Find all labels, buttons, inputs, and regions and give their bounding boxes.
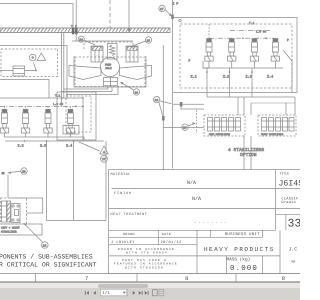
leader arrowhead on column line	[128, 29, 131, 33]
svg-text:WITH STD 00024: WITH STD 00024	[126, 252, 168, 255]
svg-text:PONENTS / SUB-ASSEMBLIES: PONENTS / SUB-ASSEMBLIES	[0, 253, 93, 260]
svg-text:27: 27	[160, 8, 164, 11]
balloon 16	[182, 122, 196, 130]
svg-text:T.1: T.1	[55, 95, 61, 98]
svg-text:LEFT + RIGHT: LEFT + RIGHT	[1, 227, 20, 230]
center dashed axis line	[109, 0, 111, 28]
port T bulkhead fitting	[71, 25, 74, 35]
pilot dash-dot bus right	[209, 37, 276, 39]
svg-text:T.1: T.1	[249, 22, 255, 25]
svg-text:26: 26	[155, 99, 159, 102]
node 2.2	[24, 140, 26, 142]
wire left riser x163	[162, 45, 164, 170]
wire long drop right	[105, 141, 107, 221]
svg-text:8: 8	[185, 276, 188, 282]
axle dashed upper box	[84, 42, 133, 49]
svg-text:DATE: DATE	[162, 232, 172, 236]
steering priority block	[57, 92, 96, 140]
axle dashed enclosure	[75, 57, 145, 87]
wire collector	[207, 96, 295, 98]
valve block under axle	[104, 78, 118, 86]
svg-text:17: 17	[102, 158, 106, 161]
title block	[109, 170, 301, 274]
node 2.3	[46, 140, 48, 142]
svg-text:WITH STD00250: WITH STD00250	[125, 266, 164, 269]
svg-text:OPTION: OPTION	[240, 153, 257, 158]
balloon WB under axle	[120, 82, 140, 95]
svg-text:P: P	[287, 39, 289, 42]
svg-text:Drawin: Drawin	[281, 200, 296, 205]
bus drops	[206, 71, 208, 73]
dashed riser	[208, 24, 210, 38]
svg-text:J LOCKLEY: J LOCKLEY	[111, 240, 135, 245]
mounting plate	[11, 204, 20, 223]
svg-text:FRONT STABILIZERS: FRONT STABILIZERS	[261, 133, 284, 136]
svg-text:DRAWN: DRAWN	[123, 232, 135, 236]
wire from outer box	[173, 103, 204, 105]
balloon 19	[42, 242, 49, 249]
svg-text:HEAT TREATMENT: HEAT TREATMENT	[111, 212, 148, 217]
svg-text:P: P	[189, 60, 191, 63]
svg-text:REAR STABILIZERS: REAR STABILIZERS	[209, 133, 231, 136]
wires	[10, 198, 43, 213]
pilot risers dashed	[4, 106, 6, 109]
wire axle left drop 1	[61, 33, 63, 107]
spool a	[2, 201, 7, 222]
front stabilizer manifold	[258, 115, 296, 136]
connector on P riser	[171, 15, 174, 20]
outlet steps right row	[203, 61, 209, 68]
solenoid valve 2.1d	[66, 109, 74, 133]
balloon 24	[78, 36, 95, 45]
sheet border	[0, 274, 300, 282]
wire option return	[0, 80, 49, 99]
svg-text:R CRITICAL OR SIGNIFICANT: R CRITICAL OR SIGNIFICANT	[0, 261, 97, 268]
port stub left	[2, 172, 5, 175]
center accumulator spring	[108, 44, 118, 60]
wire top-left supply loop	[0, 4, 73, 29]
svg-text:8: 8	[282, 276, 285, 282]
stab valve Z1	[205, 39, 213, 62]
solenoid valve 2.1c	[44, 109, 52, 133]
svg-text:J6I45: J6I45	[279, 180, 301, 189]
svg-text:16: 16	[183, 127, 187, 130]
inline filter component	[13, 66, 25, 76]
wire axle return runs	[64, 88, 108, 90]
stabilizer pilot block bottom-left	[1, 198, 43, 224]
svg-text:J.C: J.C	[289, 247, 298, 253]
wire P drop to axle	[75, 33, 77, 41]
svg-text:TITLE: TITLE	[280, 172, 290, 176]
svg-text:2.3: 2.3	[40, 143, 46, 148]
gauge symbol	[29, 54, 36, 61]
outer enclosure	[173, 18, 297, 93]
wire P line from top	[75, 0, 77, 28]
connector on wire	[180, 102, 183, 107]
svg-text:P: P	[75, 25, 77, 28]
balloon 20 left	[8, 168, 28, 174]
zone numbers	[85, 276, 285, 282]
svg-text:BUSINESS UNIT: BUSINESS UNIT	[225, 232, 260, 237]
manifold bus with drops	[83, 137, 85, 141]
valve outlet steps	[5, 133, 85, 137]
solenoid valve 2.1b	[21, 109, 29, 133]
wire long drop 2.4	[73, 141, 75, 221]
solenoid valve 2.1a	[0, 109, 8, 133]
port P bulkhead fitting	[75, 25, 78, 35]
nav next page button	[133, 291, 136, 295]
wire steering column line	[128, 0, 130, 32]
svg-text:0.000: 0.000	[230, 264, 258, 273]
connector on riser	[162, 116, 165, 121]
svg-text:MA: MA	[292, 260, 296, 264]
rear stabilizer manifold	[204, 115, 245, 136]
axle housing circle	[100, 57, 119, 76]
axle solid enclosure	[74, 56, 146, 87]
inner dashed enclosure	[180, 24, 292, 88]
stabilizer label box	[0, 223, 43, 242]
dashed pilot drop	[196, 110, 198, 133]
balloon 26	[153, 96, 171, 115]
svg-text:19: 19	[43, 244, 47, 247]
leader to triangle note	[79, 142, 100, 151]
balloon 27 top right	[159, 5, 172, 16]
svg-text:Z.1: Z.1	[191, 75, 197, 80]
svg-text:AXLE: AXLE	[105, 67, 112, 70]
left suspension valve row	[0, 106, 104, 148]
stab valve Z4	[271, 39, 279, 62]
svg-text:N/A: N/A	[192, 196, 201, 202]
balloon 17	[101, 155, 108, 162]
suspension cylinder left	[91, 46, 103, 62]
stab valve Z3	[250, 39, 258, 62]
svg-text:Z.3: Z.3	[246, 75, 252, 80]
spool b	[7, 201, 11, 222]
svg-text:MATERIAL: MATERIAL	[111, 172, 131, 177]
right stabilizer assembly	[173, 0, 297, 169]
node T1	[61, 97, 63, 99]
stab valve Z2	[228, 39, 236, 62]
balloon 23	[130, 37, 152, 47]
svg-text:4: 4	[103, 151, 105, 154]
wire bottom link	[47, 220, 107, 222]
axle assembly group	[69, 41, 152, 87]
wire bend to manifolds	[163, 127, 204, 129]
svg-text:FEATURES IN ACCORDANCE: FEATURES IN ACCORDANCE	[114, 263, 178, 266]
note text	[0, 253, 97, 268]
svg-text:Z.4: Z.4	[267, 75, 273, 80]
svg-text:23: 23	[147, 39, 151, 42]
page layout icons	[152, 290, 157, 296]
svg-text:2.4: 2.4	[66, 143, 72, 148]
viewer toolbar	[0, 288, 300, 300]
svg-text:7: 7	[85, 276, 88, 282]
svg-text:- - - - - - - -: - - - - - - - -	[194, 221, 226, 225]
svg-text:L.0 OC: L.0 OC	[53, 103, 63, 106]
wire left feed down	[7, 175, 9, 199]
warning triangle 4	[100, 146, 109, 154]
wire gauge feed	[0, 70, 13, 72]
svg-text:18: 18	[135, 91, 139, 94]
diagonal drain wire	[283, 50, 292, 61]
page number combo box	[100, 289, 127, 296]
warning triangle	[37, 53, 46, 61]
node 2.4	[73, 140, 75, 142]
axle beam right wing	[120, 66, 152, 80]
svg-text:FINISH: FINISH	[114, 191, 132, 196]
svg-text:2.2: 2.2	[18, 143, 24, 148]
suspension cylinder right	[126, 46, 138, 62]
viewer scrollbar	[0, 282, 300, 288]
svg-text:PART HAS CODE A: PART HAS CODE A	[122, 259, 167, 262]
axle beam left wing	[69, 66, 101, 80]
svg-text:MASS (kg): MASS (kg)	[227, 257, 251, 263]
svg-text:HEAVY PRODUCTS: HEAVY PRODUCTS	[204, 246, 275, 253]
svg-text:STABILIZER: STABILIZER	[1, 231, 17, 234]
nav first page button	[84, 291, 87, 295]
wire manifold drops to title border	[243, 136, 245, 170]
pilot dash-dot bus	[0, 105, 83, 107]
svg-text:33: 33	[288, 218, 301, 231]
axle top mounting line	[72, 40, 133, 42]
svg-text:I P: I P	[173, 2, 179, 6]
bulkhead hatch band	[0, 28, 170, 33]
wire axle left drop 2	[63, 33, 65, 98]
wire tank header	[0, 97, 83, 99]
svg-text:L.0 OC: L.0 OC	[256, 31, 266, 34]
svg-text:Z.2: Z.2	[223, 75, 229, 80]
svg-text:20/01/12: 20/01/12	[161, 240, 182, 245]
svg-text:N/A: N/A	[187, 180, 196, 186]
wire long drop 2.3	[46, 141, 48, 221]
svg-text:DRAWN IN ACCORDANCE: DRAWN IN ACCORDANCE	[118, 248, 175, 251]
svg-text:20: 20	[22, 170, 26, 173]
upper-left dashed option box	[0, 46, 67, 99]
dash-dot upper segment	[230, 30, 270, 32]
